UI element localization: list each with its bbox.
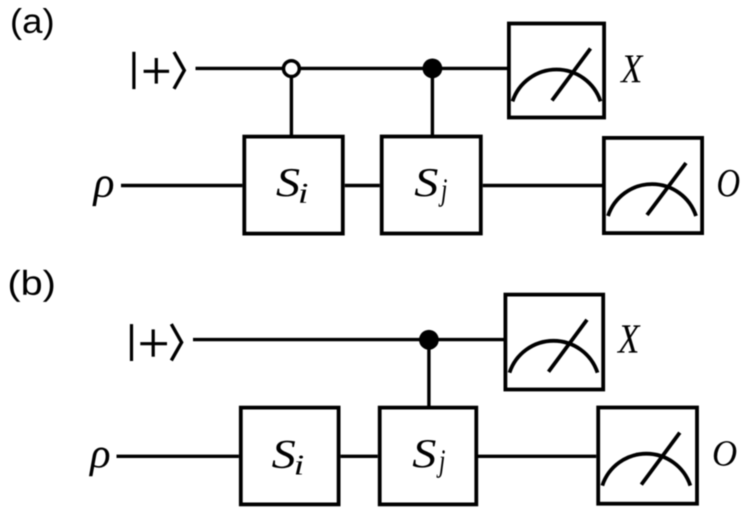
gate letter S of S_j (a) [415, 169, 438, 197]
gate box S_j (a) [382, 137, 481, 234]
wire S_j to O meter (a) [483, 184, 602, 187]
wire top qubit (b) [193, 338, 504, 341]
meter arc O (a) [608, 184, 696, 216]
ket |+> label (a) [134, 52, 184, 89]
meter needle O (a) [647, 163, 686, 215]
label (a) [12, 8, 52, 40]
gate letter S of S_i (b) [272, 441, 295, 469]
measurement box O (a) [604, 138, 702, 233]
open control (a) [284, 61, 300, 77]
wire control vertical (b) [427, 340, 430, 407]
wire rho input (a) [121, 184, 242, 187]
meter needle X (b) [549, 320, 588, 372]
wire rho input (b) [117, 455, 239, 458]
rho label (a) [92, 176, 113, 206]
rho label (b) [89, 447, 109, 476]
observable label O (a) [718, 170, 739, 197]
wire between S_i and S_j (b) [341, 455, 378, 458]
meter arc O (b) [602, 454, 690, 486]
filled control (b) [419, 330, 439, 350]
wire between S_i and S_j (a) [345, 184, 380, 187]
gate box S_j (b) [380, 408, 477, 505]
subscript j of S_j (a) [438, 179, 446, 207]
subscript j of S_j (b) [436, 450, 444, 478]
filled control (a) [423, 59, 443, 79]
basis label X (a) [620, 55, 644, 82]
gate letter S of S_i (a) [276, 169, 299, 197]
meter arc X (b) [510, 341, 598, 373]
label (b) [10, 270, 53, 302]
measurement box X (b) [505, 295, 603, 390]
meter needle X (a) [552, 49, 591, 101]
subscript i of S_i (a) [300, 184, 307, 203]
wire S_j to O meter (b) [476, 455, 596, 458]
measurement box O (b) [598, 408, 697, 504]
basis label X (b) [617, 325, 641, 352]
measurement box X (a) [509, 24, 604, 118]
subscript i of S_i (b) [296, 456, 303, 475]
gate box S_i (a) [244, 137, 342, 234]
ket |+> label (b) [132, 324, 182, 361]
wire control vertical filled (a) [431, 68, 434, 136]
observable label O (b) [714, 441, 736, 466]
wire control vertical open (a) [290, 69, 293, 136]
gate letter S of S_j (b) [413, 440, 436, 468]
wire top qubit (a) [196, 67, 508, 70]
gate box S_i (b) [241, 408, 339, 505]
meter needle O (b) [641, 433, 680, 485]
meter arc X (a) [513, 70, 601, 102]
